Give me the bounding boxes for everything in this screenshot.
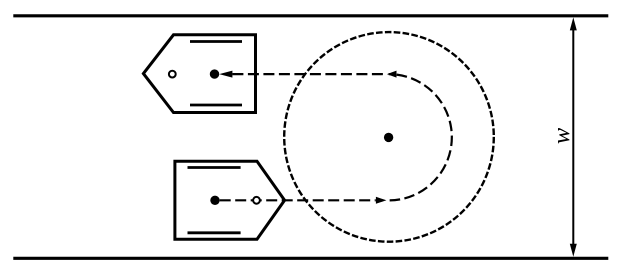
turning centre dot <box>384 133 393 142</box>
inner U-turn arc (dashed semicircle) <box>389 74 452 200</box>
bottom path dashed line <box>220 199 376 201</box>
dimension arrowhead down <box>570 244 577 257</box>
arrowhead at bottom of arc (points right) <box>376 197 387 204</box>
top vehicle upper interior line <box>190 40 242 43</box>
top vehicle axle dot <box>210 69 219 78</box>
road top edge <box>13 14 608 17</box>
bottom vehicle front reference (open circle) <box>253 197 260 204</box>
bottom vehicle body (points right) <box>175 161 285 239</box>
label w <box>558 128 569 144</box>
top path dashed line <box>232 73 387 75</box>
top vehicle body (points left) <box>143 35 255 113</box>
outer turning circle (dashed) <box>284 32 494 242</box>
bottom vehicle axle dot <box>210 196 219 205</box>
bottom vehicle upper interior line <box>188 166 241 169</box>
arrowhead at top of arc (points left) <box>387 71 397 78</box>
arrowhead into top vehicle dot (points left) <box>219 71 232 78</box>
dimension arrowhead up <box>570 17 577 30</box>
top vehicle front reference (open circle) <box>169 71 176 78</box>
road bottom edge <box>13 257 608 260</box>
top vehicle lower interior line <box>190 104 242 107</box>
bottom vehicle lower interior line <box>188 231 241 234</box>
width dimension line <box>572 28 574 246</box>
